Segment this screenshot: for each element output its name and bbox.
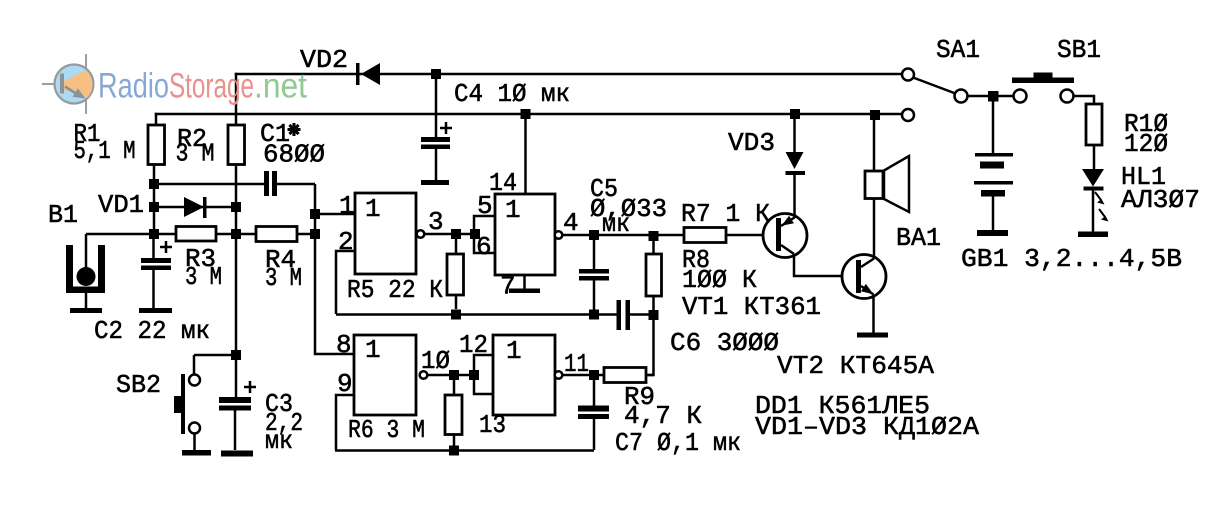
node B1 / C2 / R3 [149,229,159,239]
capacitor C6 [617,300,622,330]
capacitor C4 [421,74,452,185]
node R3-R4 junction [231,229,241,239]
svg-text:68ØØ: 68ØØ [263,140,325,170]
svg-text:мк: мк [602,209,630,239]
gate DD1.2 [495,194,555,275]
gate DD1.1 [355,193,416,274]
svg-text:Radio: Radio [98,67,169,106]
svg-text:7: 7 [500,272,516,302]
svg-text:B1: B1 [48,200,78,230]
svg-text:SB2: SB2 [116,370,161,400]
svg-text:1: 1 [339,191,355,221]
svg-text:VD3: VD3 [728,128,775,158]
resistor R10 [1086,104,1102,145]
svg-text:R6 3 М: R6 3 М [348,415,425,445]
resistor R9 [604,368,646,383]
svg-text:3 М: 3 М [176,139,215,169]
logo group [42,54,307,114]
node VD1 cathode / R2 column [231,202,241,212]
button SB1 [999,73,1095,105]
ground VT2 [857,333,888,338]
node R1 bottom / C1 wire [149,179,159,189]
capacitor C2 [139,239,172,313]
capacitor C7 [593,375,596,406]
gate DD1.4 [493,335,555,415]
resistor R7 [684,228,726,243]
wire SB2 row [194,354,236,357]
svg-text:1ØØ К: 1ØØ К [682,265,757,295]
svg-text:SB1: SB1 [1057,35,1101,65]
svg-text:3 М: 3 М [265,263,302,293]
svg-text:1: 1 [506,336,522,366]
wire pin14 [524,114,527,194]
node R8 top [649,231,659,241]
svg-text:14: 14 [489,168,517,198]
wire pin7 ground [523,275,526,289]
svg-text:3 М: 3 М [185,262,222,292]
svg-text:АЛ3Ø7: АЛ3Ø7 [1121,185,1200,215]
transistor VT2 [842,199,886,334]
wire second rail [156,113,901,116]
svg-text:4: 4 [563,208,579,238]
transistor VT1 [763,214,856,277]
svg-text:C2 22 мк: C2 22 мк [94,316,210,346]
node gate4 input tie [469,370,479,380]
node C5 bottom [589,310,599,320]
node C5 [589,230,599,240]
diode VD2 [356,63,380,85]
svg-text:VD2: VD2 [300,45,348,75]
diode VD1 [184,197,204,217]
capacitor C3 [219,381,256,457]
speaker BA1 [865,110,909,212]
logo base bar [60,74,64,94]
gate DD1.3 [354,335,416,415]
wire VD1 row [154,206,236,209]
svg-text:4,7 К: 4,7 К [624,401,702,431]
wire feedback y314 left of C6 [336,313,617,316]
wire pin3 to gate2 inputs [425,233,475,236]
svg-text:1: 1 [365,335,381,365]
svg-text:C6 3ØØØ: C6 3ØØØ [670,328,779,358]
node R4 right / x315 column [310,229,320,239]
resistor R3 [176,227,216,242]
wire pin11 to R9 [563,374,605,377]
wire feedback y450 [335,449,594,452]
resistor R5 [455,239,458,254]
logo circle [55,65,94,104]
output DD1.4 pin11 [555,371,563,379]
LED HL1 [1078,169,1109,237]
wire R1 column [86,164,355,397]
resistor R6 [453,380,456,395]
svg-text:3: 3 [428,207,444,237]
wire R2 bottom column [235,164,238,397]
svg-text:12: 12 [459,330,488,360]
svg-text:Storage: Storage [169,67,254,106]
node VD1 anode [149,202,159,212]
svg-text:VT1 КТ361: VT1 КТ361 [682,292,821,322]
svg-text:5,1 М: 5,1 М [74,136,136,166]
wire y184 to C1 [154,183,265,186]
wire pin1 [315,213,355,216]
output DD1.3 pin10 [420,371,428,379]
resistor R2 [228,125,245,165]
wire pin2 feedback [336,251,355,314]
resistor R8 [652,235,655,254]
svg-text:12Ø: 12Ø [1124,129,1168,159]
node junction top rail / C4 [431,69,441,79]
node R5 bottom [451,310,461,320]
microphone B1 [66,234,105,313]
node battery junction [988,91,999,102]
button SB2 [174,355,211,456]
node R6 bottom [449,446,459,456]
svg-text:VD1–VD3 КД1Ø2А: VD1–VD3 КД1Ø2А [755,412,979,442]
svg-text:C7 Ø,1 мк: C7 Ø,1 мк [615,428,741,458]
svg-text:1Ø: 1Ø [421,346,450,376]
node R6 top [449,370,459,380]
wire mic row y234 [86,233,176,236]
wire C1 right to x315 column [277,183,315,186]
wire pins 5-6 tie [474,216,495,253]
svg-text:C4 1Ø мк: C4 1Ø мк [454,79,570,109]
wire pin9 feedback [336,395,354,450]
svg-text:GB1 3,2...4,5В: GB1 3,2...4,5В [961,244,1182,274]
logo crosshair [42,54,86,114]
svg-text:VD1: VD1 [98,190,144,220]
svg-text:BA1: BA1 [896,223,941,253]
svg-text:R7 1 К: R7 1 К [681,199,770,229]
svg-text:SA1: SA1 [936,35,980,65]
svg-text:13: 13 [479,410,506,440]
svg-text:мк: мк [265,426,293,456]
wire C6 right to R8 bottom [630,313,654,316]
wire top rail [236,73,901,76]
output DD1.2 pin4 [555,231,563,239]
node C7 top / R9 left [589,370,599,380]
output DD1.1 pin3 [417,230,425,238]
svg-text:1: 1 [365,194,381,224]
node R5 top [451,229,461,239]
wire x315 column [315,184,354,354]
wire R8/C6 column to R9 [646,315,654,375]
capacitor C1 [264,171,269,196]
svg-text:8: 8 [336,330,352,360]
logo orange wedge [63,70,92,98]
wire R1 top stub [155,114,158,125]
svg-text:2: 2 [338,227,354,257]
wire pin10 to gate4 inputs [428,374,475,377]
svg-text:1: 1 [505,195,521,225]
diode VD3 [790,109,800,119]
svg-text:R5 22 К: R5 22 К [347,275,443,305]
switch SA1 [902,69,988,122]
resistor R4 [256,227,297,242]
svg-text:6: 6 [476,232,492,262]
logo emitter arrow [65,87,76,94]
resistor R1 [148,125,165,165]
node R8 bottom / C6 right [649,310,659,320]
node gate2 in [470,229,480,239]
battery GB1 [974,101,1013,236]
wire signal row [563,234,685,237]
wire pins 12-13 tie [474,355,493,394]
capacitor C5 [593,235,596,269]
wire R2 top stub [235,74,238,125]
node pin1 wire / x315 column [310,209,320,219]
svg-text:VT2 КТ645А: VT2 КТ645А [777,351,934,381]
